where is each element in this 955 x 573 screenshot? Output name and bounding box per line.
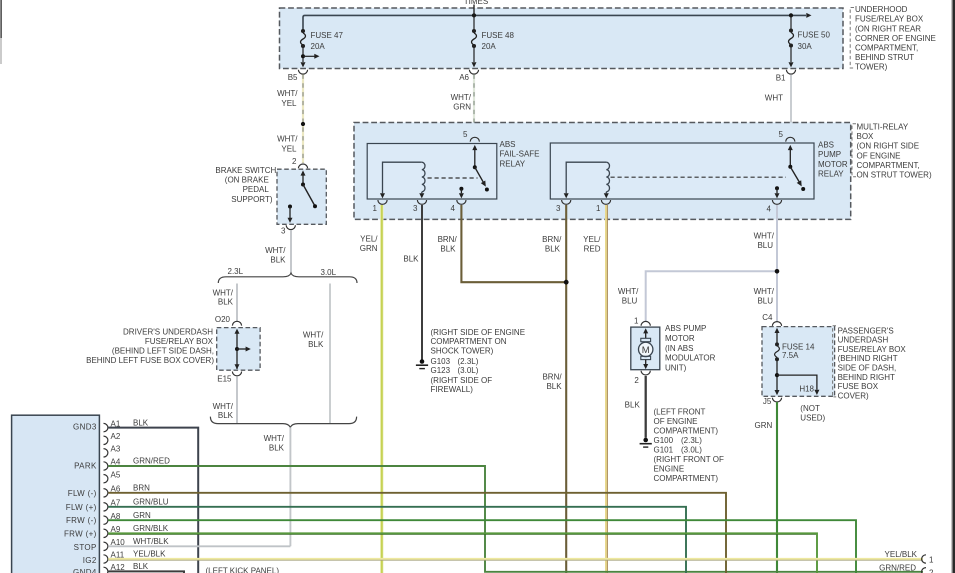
relay ABS pump motor: switch: [788, 145, 805, 191]
svg-text:GRN: GRN: [755, 421, 773, 430]
svg-text:BLU: BLU: [757, 297, 773, 306]
svg-text:FAIL-SAFE: FAIL-SAFE: [500, 150, 540, 159]
wire YEL/GRN pin1 to bottom: [360, 205, 382, 573]
svg-text:3: 3: [413, 204, 418, 213]
svg-text:2.3L: 2.3L: [228, 267, 244, 276]
output pin 2 GRN/RED: [879, 564, 934, 573]
wire BRN/BLK pin3 to bottom: [542, 205, 568, 573]
svg-text:(IN ABS: (IN ABS: [665, 344, 693, 353]
relay ABS fail-safe: coil: [380, 162, 478, 198]
svg-text:WHT/: WHT/: [264, 434, 285, 443]
label driver's underdash box: [86, 327, 214, 365]
svg-text:G103: G103: [431, 357, 451, 366]
svg-text:COMPARTMENT,: COMPARTMENT,: [857, 161, 920, 170]
pin A6: [459, 70, 478, 82]
svg-text:A6: A6: [459, 73, 469, 82]
svg-text:GND4: GND4: [73, 568, 97, 573]
wire A12 BLK: [108, 562, 279, 573]
connector pins A1-A12: [104, 419, 126, 573]
svg-text:STOP: STOP: [74, 543, 97, 552]
junction and H18 branch: [775, 373, 820, 395]
svg-text:SIDE OF DASH,: SIDE OF DASH,: [838, 364, 897, 373]
svg-text:A5: A5: [111, 470, 121, 479]
pin 3 brake switch: [281, 225, 295, 235]
output pin 1 YEL/BLK: [885, 550, 934, 565]
svg-text:UNIT): UNIT): [665, 363, 687, 372]
wire A6 BRN: [108, 483, 726, 573]
svg-text:GRN: GRN: [360, 244, 378, 253]
svg-text:20A: 20A: [311, 42, 326, 51]
svg-text:GRN/BLU: GRN/BLU: [133, 497, 169, 506]
split brace 2.3L / 3.0L: [218, 267, 357, 283]
label passenger's box: [833, 326, 907, 401]
svg-text:BEHIND LEFT FUSE BOX COVER): BEHIND LEFT FUSE BOX COVER): [86, 356, 214, 365]
svg-text:GRN: GRN: [133, 511, 151, 520]
svg-text:RELAY: RELAY: [818, 170, 844, 179]
svg-text:COVER): COVER): [838, 391, 869, 400]
svg-text:FRW (+): FRW (+): [64, 529, 97, 538]
relay ABS fail-safe: switch: [472, 145, 489, 192]
svg-text:SUPPORT): SUPPORT): [231, 195, 273, 204]
svg-text:BLK: BLK: [270, 256, 286, 265]
svg-text:FIREWALL): FIREWALL): [431, 385, 474, 394]
svg-text:PASSENGER'S: PASSENGER'S: [838, 326, 894, 335]
svg-text:A3: A3: [111, 445, 121, 454]
svg-text:BLK: BLK: [133, 418, 149, 427]
svg-text:M: M: [642, 345, 650, 356]
svg-text:WHT/: WHT/: [265, 246, 286, 255]
svg-text:(2.3L): (2.3L): [681, 436, 702, 445]
svg-text:3: 3: [281, 227, 286, 236]
svg-text:ABS PUMP: ABS PUMP: [665, 324, 706, 333]
svg-text:WHT: WHT: [765, 94, 783, 103]
relay ABS fail-safe: body: [367, 130, 497, 199]
wire WHT/BLK E15 to merge: [213, 376, 237, 423]
svg-text:MOTOR: MOTOR: [665, 334, 695, 343]
wire WHT/YEL B5 to brake switch: [277, 75, 305, 164]
svg-text:1: 1: [634, 317, 639, 326]
svg-text:WHT/: WHT/: [754, 231, 775, 240]
svg-text:WHT/: WHT/: [618, 287, 639, 296]
svg-text:WHT/: WHT/: [277, 135, 298, 144]
wire GRN J5 to bottom: [755, 402, 777, 573]
svg-text:CORNER OF ENGINE: CORNER OF ENGINE: [855, 34, 936, 43]
multi-relay box: [354, 123, 851, 220]
svg-text:(ON RIGHT REAR: (ON RIGHT REAR: [855, 24, 921, 33]
driver's underdash fuse/relay box: [217, 328, 260, 371]
svg-text:ABS: ABS: [500, 140, 516, 149]
svg-text:E15: E15: [217, 375, 232, 384]
svg-text:BRAKE SWITCH: BRAKE SWITCH: [215, 166, 276, 175]
wire BLK motor to ground G100: [625, 376, 646, 438]
svg-text:2: 2: [634, 376, 639, 385]
svg-text:3: 3: [556, 204, 561, 213]
svg-text:BLK: BLK: [545, 245, 561, 254]
svg-text:MODULATOR: MODULATOR: [665, 354, 716, 363]
svg-text:YEL: YEL: [281, 99, 297, 108]
svg-text:G123: G123: [431, 366, 451, 375]
svg-text:BRN/: BRN/: [542, 373, 562, 382]
svg-text:ABS: ABS: [818, 141, 834, 150]
wire A10 WHT/BLK: [108, 537, 290, 546]
svg-text:TIMES: TIMES: [464, 0, 488, 6]
svg-text:GRN/BLK: GRN/BLK: [133, 524, 169, 533]
merge brace: [210, 417, 356, 428]
svg-text:WHT/: WHT/: [451, 93, 472, 102]
label ABS pump motor: [665, 324, 716, 372]
svg-text:WHT/: WHT/: [213, 288, 234, 297]
svg-text:FUSE BOX: FUSE BOX: [838, 382, 879, 391]
svg-text:(NOT: (NOT: [800, 404, 820, 413]
fuse 48 20A: [472, 5, 515, 68]
pin J5 and NOT USED: [763, 397, 826, 423]
svg-text:WHT/: WHT/: [277, 89, 298, 98]
wire YEL/RED pin1 to bottom: [583, 205, 607, 573]
svg-text:5: 5: [779, 130, 784, 139]
svg-text:TOWER): TOWER): [855, 63, 888, 72]
ABS pump motor: [631, 317, 660, 386]
fuse 14 7.5A: [775, 342, 815, 390]
wire WHT/BLU pin4 to C4 with motor branch: [618, 205, 779, 322]
svg-text:WHT/: WHT/: [754, 287, 775, 296]
svg-text:20A: 20A: [482, 42, 497, 51]
svg-text:ENGINE: ENGINE: [654, 465, 685, 474]
svg-text:WHT/: WHT/: [213, 402, 234, 411]
svg-text:1: 1: [929, 556, 934, 565]
svg-text:GND3: GND3: [73, 422, 97, 431]
right page edge: [951, 0, 955, 573]
svg-text:SHOCK TOWER): SHOCK TOWER): [431, 347, 494, 356]
svg-text:WHT/: WHT/: [303, 330, 324, 339]
wire A9 GRN/BLK: [108, 524, 817, 573]
svg-text:J5: J5: [763, 397, 772, 406]
svg-text:BLU: BLU: [622, 297, 638, 306]
svg-text:MOTOR: MOTOR: [818, 160, 848, 169]
svg-text:YEL: YEL: [281, 144, 297, 153]
svg-text:BLU: BLU: [757, 241, 773, 250]
svg-text:FUSE 48: FUSE 48: [482, 31, 515, 40]
label brake switch: [215, 166, 276, 204]
ground G103/G123: [416, 328, 525, 394]
fuse 47 20A: [301, 29, 344, 67]
wire WHT/BLK pin3 to split: [265, 230, 291, 274]
svg-text:COMPARTMENT ON: COMPARTMENT ON: [431, 337, 507, 346]
passenger's underdash fuse/relay box: [762, 327, 835, 397]
svg-text:MULTI-RELAY: MULTI-RELAY: [857, 123, 909, 132]
svg-text:BLK: BLK: [403, 254, 419, 263]
svg-text:RED: RED: [584, 245, 601, 254]
svg-text:30A: 30A: [798, 42, 813, 51]
svg-text:(ON BRAKE: (ON BRAKE: [225, 176, 269, 185]
svg-text:(2.3L): (2.3L): [458, 357, 479, 366]
svg-text:FUSE 47: FUSE 47: [311, 31, 344, 40]
svg-text:(LEFT KICK PANEL): (LEFT KICK PANEL): [206, 567, 280, 573]
svg-text:BRN/: BRN/: [438, 235, 458, 244]
svg-text:(3.0L): (3.0L): [681, 446, 702, 455]
svg-text:OF ENGINE: OF ENGINE: [857, 151, 901, 160]
svg-text:G100: G100: [654, 436, 674, 445]
node HOT AT ALL TIMES: [464, 0, 488, 15]
svg-text:(RIGHT SIDE OF: (RIGHT SIDE OF: [431, 376, 493, 385]
svg-text:FUSE/RELAY BOX: FUSE/RELAY BOX: [855, 15, 924, 24]
wire WHT B1 to pump motor relay: [765, 75, 791, 138]
wire power bus: [303, 13, 812, 30]
svg-text:O20: O20: [215, 315, 231, 324]
svg-text:DRIVER'S UNDERDASH: DRIVER'S UNDERDASH: [123, 327, 213, 336]
wire WHT/GRN A6 to fail-safe relay: [451, 75, 474, 138]
svg-text:BRN/: BRN/: [542, 235, 562, 244]
svg-text:PUMP: PUMP: [818, 150, 841, 159]
svg-text:COMPARTMENT): COMPARTMENT): [654, 427, 719, 436]
svg-text:BLK: BLK: [133, 562, 149, 571]
svg-text:3.0L: 3.0L: [321, 268, 337, 277]
relay ABS pump motor: coil: [564, 162, 786, 198]
svg-text:BEHIND RIGHT: BEHIND RIGHT: [838, 373, 895, 382]
svg-text:BEHIND STRUT: BEHIND STRUT: [855, 53, 914, 62]
svg-text:GRN/RED: GRN/RED: [133, 456, 170, 465]
svg-text:GRN: GRN: [453, 103, 471, 112]
svg-text:(BEHIND RIGHT: (BEHIND RIGHT: [838, 354, 898, 363]
brake switch: [277, 157, 326, 224]
svg-text:YEL/: YEL/: [360, 235, 378, 244]
svg-text:1: 1: [596, 204, 601, 213]
pin C4: [762, 313, 781, 326]
pin B5: [288, 70, 308, 82]
wire A4 GRN/RED: [108, 456, 923, 571]
relay ABS pump motor: body: [550, 130, 814, 199]
wire A8 GRN: [108, 511, 856, 573]
relay ABS pump motor: pin 4 stub: [775, 186, 780, 198]
svg-text:2: 2: [292, 157, 297, 166]
label underhood box: [850, 5, 936, 72]
underhood fuse/relay box: [280, 8, 844, 69]
wire A1 BLK: [108, 418, 198, 573]
svg-text:BLK: BLK: [440, 245, 456, 254]
wire BLK pin3 to ground G103: [403, 205, 422, 360]
label ABS pump motor relay: [818, 141, 848, 179]
svg-text:FUSE 50: FUSE 50: [798, 31, 831, 40]
svg-text:BLK: BLK: [218, 298, 234, 307]
svg-text:1: 1: [373, 204, 378, 213]
svg-text:FLW (+): FLW (+): [66, 503, 97, 512]
svg-text:COMPARTMENT): COMPARTMENT): [654, 474, 719, 483]
svg-text:FLW (-): FLW (-): [68, 489, 97, 498]
svg-text:(RIGHT FRONT OF: (RIGHT FRONT OF: [654, 455, 724, 464]
fuse 50 30A: [789, 15, 831, 67]
svg-text:H18: H18: [799, 385, 814, 394]
pin O20: [215, 315, 242, 326]
svg-text:COMPARTMENT,: COMPARTMENT,: [855, 44, 918, 53]
svg-text:(BEHIND LEFT SIDE DASH,: (BEHIND LEFT SIDE DASH,: [112, 347, 214, 356]
svg-text:G101: G101: [654, 446, 674, 455]
svg-text:BLK: BLK: [625, 400, 641, 409]
wire A7 GRN/BLU: [108, 497, 686, 573]
wire A11 YEL/BLK: [108, 550, 923, 561]
wire WHT/BLK 2.3L branch: [213, 284, 237, 322]
svg-text:WHT/BLK: WHT/BLK: [133, 537, 169, 546]
svg-text:YEL/BLK: YEL/BLK: [133, 550, 166, 559]
svg-text:2: 2: [929, 569, 934, 573]
svg-text:YEL/: YEL/: [583, 235, 601, 244]
wire WHT/BLK 3.0L branch: [303, 284, 330, 424]
svg-text:BOX: BOX: [857, 132, 875, 141]
svg-text:5: 5: [463, 130, 468, 139]
svg-text:C4: C4: [762, 313, 773, 322]
svg-text:GRN/RED: GRN/RED: [879, 564, 916, 573]
svg-text:7.5A: 7.5A: [782, 351, 799, 360]
pins 3 1 4 of pump motor relay: [556, 200, 782, 214]
svg-text:FUSE/RELAY BOX: FUSE/RELAY BOX: [838, 345, 907, 354]
pins 1 3 4 of fail-safe relay: [373, 200, 466, 213]
svg-text:BLK: BLK: [218, 411, 234, 420]
svg-text:USED): USED): [800, 414, 825, 423]
svg-text:(LEFT FRONT: (LEFT FRONT: [654, 408, 706, 417]
svg-text:IG2: IG2: [83, 556, 97, 565]
svg-text:BRN: BRN: [133, 483, 150, 492]
svg-text:PARK: PARK: [74, 462, 97, 471]
svg-text:FRW (-): FRW (-): [66, 516, 97, 525]
svg-text:A2: A2: [111, 432, 121, 441]
svg-text:OF ENGINE: OF ENGINE: [654, 417, 698, 426]
svg-text:(ON RIGHT SIDE: (ON RIGHT SIDE: [857, 142, 920, 151]
svg-text:4: 4: [767, 205, 772, 214]
pin E15: [217, 372, 241, 384]
pin B1: [776, 70, 796, 83]
svg-text:(RIGHT SIDE OF ENGINE: (RIGHT SIDE OF ENGINE: [431, 328, 526, 337]
svg-text:YEL/BLK: YEL/BLK: [885, 550, 918, 559]
left page edge artifact: [0, 0, 1, 64]
svg-text:ON STRUT TOWER): ON STRUT TOWER): [857, 171, 932, 180]
wire BRN/BLK pin4 elbow to junction: [438, 205, 567, 282]
svg-text:UNDERDASH: UNDERDASH: [838, 336, 889, 345]
svg-text:B1: B1: [776, 74, 786, 83]
svg-text:PEDAL: PEDAL: [243, 185, 270, 194]
svg-text:FUSE/RELAY BOX: FUSE/RELAY BOX: [145, 337, 214, 346]
wire WHT/BLK merge to STOP A10: [264, 427, 291, 546]
label multi-relay box: [852, 123, 932, 180]
svg-text:4: 4: [451, 204, 456, 213]
svg-text:(3.0L): (3.0L): [458, 366, 479, 375]
svg-text:BLK: BLK: [308, 340, 324, 349]
svg-text:B5: B5: [288, 73, 298, 82]
ground G100/G101: [640, 408, 724, 484]
label ABS fail-safe relay: [500, 140, 540, 169]
svg-text:RELAY: RELAY: [500, 159, 526, 168]
svg-text:BLK: BLK: [269, 444, 285, 453]
svg-text:UNDERHOOD: UNDERHOOD: [855, 5, 908, 14]
ABS control unit box: [12, 415, 100, 573]
svg-text:BLK: BLK: [546, 382, 562, 391]
relay ABS fail-safe: pin 4 stub: [459, 187, 464, 199]
